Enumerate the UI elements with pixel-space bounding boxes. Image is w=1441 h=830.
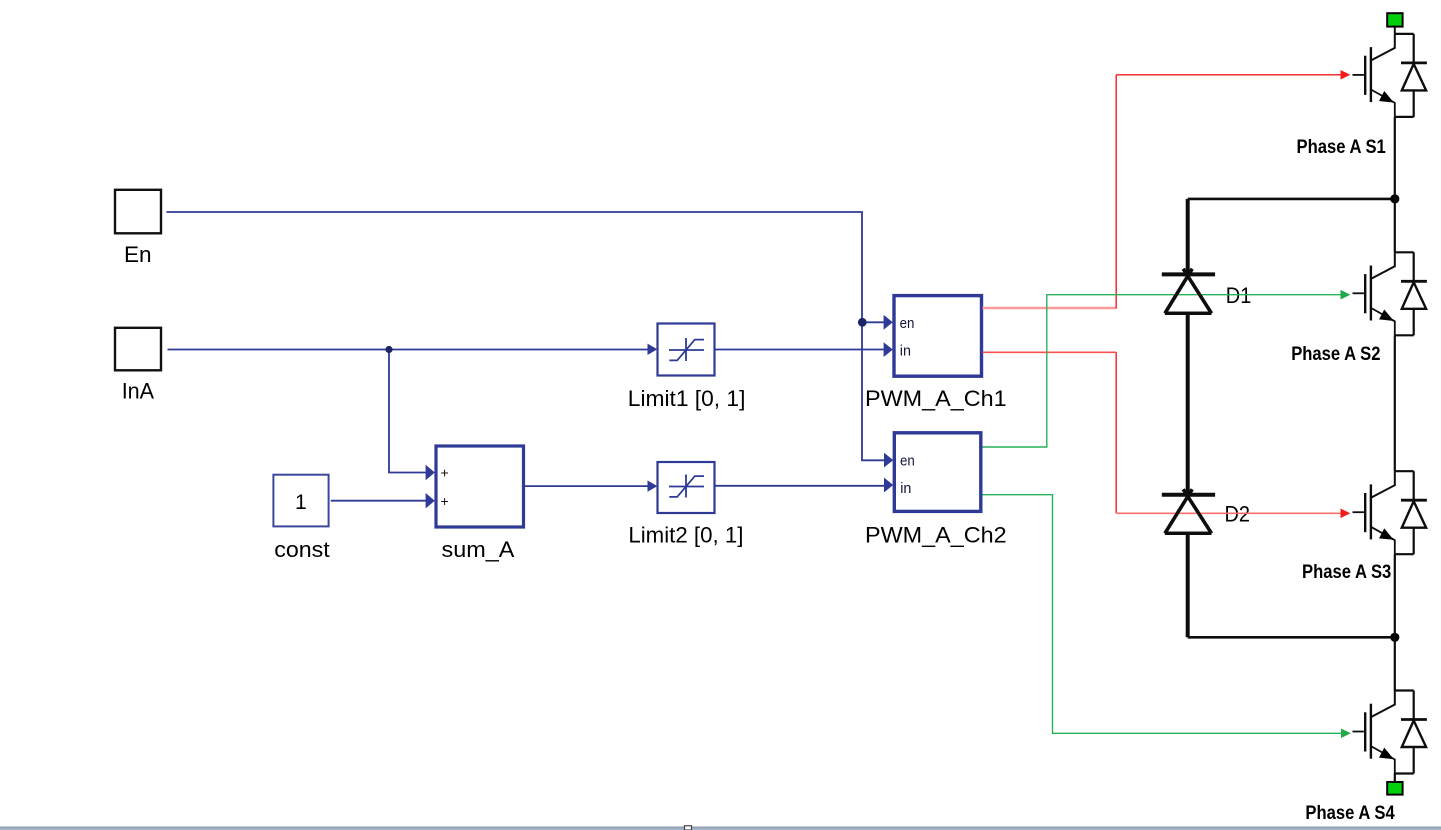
svg-text:Phase A S2: Phase A S2 [1291, 344, 1380, 365]
svg-text:in: in [900, 343, 911, 360]
svg-text:+: + [441, 465, 449, 481]
svg-text:1: 1 [295, 491, 307, 514]
svg-text:Phase A S1: Phase A S1 [1297, 137, 1387, 158]
svg-text:D2: D2 [1225, 502, 1251, 527]
svg-text:PWM_A_Ch2: PWM_A_Ch2 [865, 523, 1007, 548]
svg-text:en: en [900, 453, 915, 470]
svg-text:Phase A S3: Phase A S3 [1302, 562, 1391, 583]
svg-text:+: + [441, 493, 449, 509]
svg-text:sum_A: sum_A [442, 537, 515, 562]
svg-text:in: in [900, 480, 911, 497]
svg-text:Limit2 [0, 1]: Limit2 [0, 1] [628, 523, 743, 548]
svg-text:PWM_A_Ch1: PWM_A_Ch1 [865, 386, 1007, 411]
svg-text:const: const [274, 537, 330, 562]
svg-text:En: En [124, 242, 152, 267]
svg-text:en: en [900, 315, 915, 332]
svg-text:D1: D1 [1226, 283, 1252, 308]
svg-text:Limit1 [0, 1]: Limit1 [0, 1] [628, 386, 746, 411]
svg-text:Phase A S4: Phase A S4 [1305, 803, 1395, 824]
svg-text:InA: InA [122, 379, 155, 404]
